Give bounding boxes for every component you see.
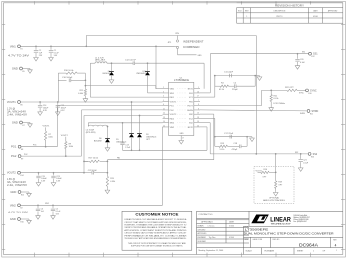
svg-text:SCALE: SCALE [246, 250, 253, 253]
svg-text:R18: R18 [278, 182, 281, 184]
capacitor C6 1uF [36, 209, 40, 211]
svg-text:E8: E8 [21, 149, 23, 151]
ground below R21 [269, 106, 274, 111]
wire SS2 row [210, 153, 308, 155]
svg-text:14: 14 [163, 121, 165, 123]
capacitor C2 [35, 46, 37, 50]
customer notice box [122, 211, 192, 250]
capacitor C18 plates [239, 145, 241, 149]
capacitor C14 output1 a [39, 102, 41, 105]
wire GND E7 [23, 122, 31, 124]
svg-text:C16 100pF: C16 100pF [62, 77, 73, 79]
svg-text:6/1/06: 6/1/06 [313, 16, 318, 18]
svg-text:1: 1 [313, 251, 314, 253]
ground at E16 [27, 219, 32, 224]
svg-text:GND: GND [12, 67, 18, 71]
svg-text:FOR 700kHz: FOR 700kHz [274, 103, 286, 105]
svg-text:4.99k: 4.99k [110, 181, 115, 183]
wire PG2 to IC [82, 109, 163, 111]
wire VIN1 rail [21, 45, 175, 47]
wire SS2 to riser [200, 122, 210, 124]
diode D4 body [109, 72, 114, 76]
wire SHDN to terminal [200, 110, 307, 111]
wire RT to riser [200, 105, 262, 107]
svg-text:VOUT1: VOUT1 [170, 101, 178, 103]
capacitor C4 plates [234, 84, 236, 88]
terminal GND E5 [20, 67, 23, 70]
terminal GND E15 [18, 191, 21, 194]
svg-text:GND: GND [180, 133, 185, 135]
svg-text:2.2uF: 2.2uF [125, 147, 131, 149]
wire BST1 vertical [203, 63, 205, 88]
wire SS1 row to terminal [210, 53, 308, 55]
svg-text:VOUT2: VOUT2 [7, 171, 16, 175]
wire R16 stub [258, 171, 261, 173]
svg-text:4: 4 [335, 243, 337, 247]
svg-text:APPROVED: APPROVED [328, 9, 338, 12]
svg-text:20: 20 [197, 125, 199, 127]
wire BST2 row [123, 149, 208, 151]
capacitor C21 0.1uF [300, 154, 302, 159]
svg-text:470pF: 470pF [232, 149, 238, 151]
svg-text:VOUT2: VOUT2 [61, 135, 69, 137]
resistor R22 OPT [287, 89, 297, 91]
wire R17 row right [100, 160, 107, 162]
svg-text:17: 17 [182, 138, 184, 140]
terminal VIN2 E2 [18, 204, 21, 207]
wire VOUT2 row [84, 115, 163, 117]
svg-text:ENGINEER: ENGINEER [198, 237, 207, 239]
wire SW2 to C13 [122, 123, 124, 143]
wire R9 bottom [65, 149, 67, 157]
resistor R16 OPT [261, 171, 269, 173]
capacitor C17 plates [230, 135, 232, 139]
wire VOUT1 rail [21, 101, 163, 103]
wire VIN2 rail [21, 204, 163, 206]
wire PG1 riser [56, 106, 58, 147]
revision history table [237, 3, 343, 23]
svg-text:C11 22pF: C11 22pF [224, 72, 234, 74]
wire R17 to FB2 row link [106, 160, 108, 162]
wire VOUT2 left riser [83, 116, 85, 173]
svg-text:VIN1: VIN1 [10, 44, 16, 48]
wire D5 to BST2 row [131, 138, 133, 151]
svg-text:DATE: DATE [229, 221, 235, 224]
wire R22 to SYNC [297, 89, 306, 91]
svg-text:TECHNOLOGY APPLICATIONS ENGINE: TECHNOLOGY APPLICATIONS ENGINEERING FOR … [124, 237, 186, 240]
capacitor C2 1uF [34, 51, 38, 53]
ground below C21 [298, 167, 303, 172]
capacitor C14 100uF [38, 106, 42, 108]
diode D4 B0540W [111, 63, 113, 71]
svg-text:BST2: BST2 [188, 127, 194, 129]
svg-text:VIN: VIN [175, 33, 179, 35]
svg-text:C22 47pF: C22 47pF [88, 170, 98, 172]
wire C12 to BST1 corner [135, 62, 204, 64]
capacitor C16 100pF [69, 79, 71, 83]
svg-text:INDEPENDENT: INDEPENDENT [183, 40, 204, 43]
ground below C20 [295, 64, 300, 69]
wire C13 to BST2 row [122, 145, 124, 151]
svg-text:1: 1 [336, 250, 337, 252]
capacitor C23 100uF [51, 176, 55, 178]
svg-text:DESIGNER: DESIGNER [198, 241, 207, 243]
ground below U1 [179, 139, 184, 144]
svg-text:PG2: PG2 [24, 154, 27, 156]
terminal SS1 E12 [309, 52, 312, 55]
svg-text:SIZE: SIZE [245, 239, 249, 241]
resistor R19 4.99k [106, 176, 108, 186]
wire SW2 jog [87, 123, 89, 127]
svg-text:DWG NO: DWG NO [273, 239, 280, 241]
svg-text:DUAL MONOLITHIC STEP-DOWN DC/D: DUAL MONOLITHIC STEP-DOWN DC/DC CONVERTE… [244, 232, 334, 236]
terminal VOUT1 E6 [18, 101, 21, 104]
svg-text:E10: E10 [309, 93, 312, 95]
diode D9 body [137, 134, 142, 138]
wire VIN rail right drop to SS2 row [255, 36, 257, 154]
svg-text:C17 22pF: C17 22pF [224, 133, 234, 135]
svg-text:6/1/06: 6/1/06 [229, 237, 234, 239]
svg-text:3A, VIN2=24V: 3A, VIN2=24V [7, 181, 27, 184]
svg-text:COMBINED: COMBINED [183, 46, 200, 49]
wire GND E15 [21, 191, 29, 193]
ground at E15 [27, 192, 32, 197]
resistor R21 body [270, 95, 272, 102]
svg-text:1: 1 [198, 87, 199, 89]
svg-text:PG2: PG2 [11, 154, 17, 158]
wire RT riser [261, 90, 263, 105]
svg-text:VIN2: VIN2 [45, 203, 49, 205]
ground below C2 [34, 56, 39, 61]
ground right of C11 [257, 76, 262, 81]
wire SW1 node row [90, 62, 95, 64]
capacitor C21 plates [299, 160, 303, 162]
diode D10 CMDSH2-3 [147, 63, 149, 71]
svg-text:B0540W: B0540W [103, 73, 111, 75]
svg-text:16: 16 [197, 91, 199, 93]
wire tracking node riser [275, 154, 277, 181]
wire FB2 riser [213, 114, 215, 160]
capacitor C17 22pF row [215, 136, 247, 138]
wire BST2 riser [206, 127, 208, 150]
op-amp U1 LT3509EFE [169, 82, 194, 135]
wire VOUT2 rail [21, 172, 85, 174]
svg-text:PGVT: PGVT [187, 106, 193, 108]
resistor R18 OPT [275, 181, 277, 189]
svg-text:12: 12 [163, 113, 165, 115]
svg-text:0.1uF: 0.1uF [300, 62, 306, 64]
wire FB2 row [107, 159, 213, 161]
svg-text:E14: E14 [21, 175, 24, 177]
svg-text:THIS CIRCUIT IS PROPRIETARY TO: THIS CIRCUIT IS PROPRIETARY TO LINEAR TE… [128, 242, 186, 245]
capacitor C23 output2 b [53, 173, 55, 176]
svg-text:11: 11 [163, 108, 165, 110]
svg-text:GND: GND [10, 190, 16, 194]
capacitor C15 output1 b [57, 102, 59, 105]
wire VC2 network right side [246, 137, 248, 147]
svg-text:19: 19 [197, 121, 199, 123]
svg-text:E1: E1 [21, 49, 23, 51]
resistor R17 10.0k [90, 160, 100, 162]
svg-text:CONTRACT NO.: CONTRACT NO. [199, 213, 214, 216]
wire GND E16 [21, 218, 30, 220]
svg-text:C.Teixeira: C.Teixeira [208, 225, 215, 227]
svg-text:61.9k: 61.9k [219, 89, 224, 91]
svg-text:VOUT2: VOUT2 [170, 114, 178, 116]
ground below C5 [51, 214, 56, 219]
capacitor C22 47pF [92, 171, 94, 175]
VC1 series RC row [214, 76, 216, 87]
ground below D4 [109, 79, 114, 84]
capacitor C15 100uF [56, 106, 60, 108]
svg-text:2.4A, VIN1=5V: 2.4A, VIN1=5V [7, 113, 28, 116]
svg-text:15: 15 [163, 125, 165, 127]
terminal PG1 E8 [18, 145, 21, 148]
resistor R9 100k [65, 142, 67, 149]
wire VIN1 row to IC [156, 88, 163, 90]
svg-text:E16: E16 [21, 221, 24, 223]
svg-text:1.8V @: 1.8V @ [7, 178, 16, 181]
svg-text:E11: E11 [310, 113, 313, 115]
svg-text:SHEET: SHEET [297, 251, 304, 253]
wire VIN1 drop to pin [155, 46, 157, 88]
ground below C6 [36, 214, 41, 219]
svg-text:CIRCUIT THAT MEETS CUSTOMER-SU: CIRCUIT THAT MEETS CUSTOMER-SUPPLIED SPE… [124, 221, 186, 224]
svg-text:OPTIONAL: OPTIONAL [269, 197, 280, 200]
wire PG1 to IC [57, 105, 162, 107]
wire PG1 row [21, 146, 57, 148]
svg-text:4.7V TO 24V: 4.7V TO 24V [8, 56, 30, 58]
resistor R7 100k [44, 131, 46, 140]
wire L1 left riser to IND1 [89, 63, 91, 97]
svg-text:LT3509EFE: LT3509EFE [174, 79, 189, 82]
svg-text:SS2: SS2 [295, 152, 298, 154]
svg-text:APPROVALS: APPROVALS [201, 221, 213, 224]
svg-text:R10 10.0k: R10 10.0k [64, 70, 74, 72]
svg-text:18: 18 [197, 117, 199, 119]
svg-text:PG1: PG1 [11, 145, 17, 149]
wire C22 row [84, 172, 92, 174]
terminal GND E7 [20, 121, 23, 124]
wire VIN2 riser to pin [162, 127, 164, 205]
ground below R19 [105, 189, 110, 194]
svg-text:HOWEVER, IT REMAINS THE CUSTOM: HOWEVER, IT REMAINS THE CUSTOMER’S RESPO… [124, 224, 186, 227]
capacitor C13 2.2uF [120, 143, 124, 145]
svg-text:VOUT1: VOUT1 [7, 100, 16, 104]
wire C16 row right [71, 79, 86, 81]
svg-text:(FP3-3R3): (FP3-3R3) [86, 132, 96, 134]
svg-text:B0540W: B0540W [94, 140, 102, 142]
svg-text:E5: E5 [23, 71, 25, 73]
diode D6 body [105, 138, 110, 142]
svg-text:7: 7 [198, 100, 199, 102]
capacitor C6 input2 a [37, 205, 39, 208]
svg-text:Monday, September 11, 2006: Monday, September 11, 2006 [199, 249, 224, 252]
capacitor C11 plates [230, 74, 232, 78]
terminal SHDN E11 [307, 110, 310, 113]
svg-text:C20: C20 [300, 59, 303, 61]
svg-text:100k: 100k [48, 137, 52, 139]
wire RT row [262, 89, 288, 91]
svg-text:REVISION HISTORY: REVISION HISTORY [275, 5, 305, 7]
terminal GND E16 [18, 218, 21, 221]
capacitor C5 0.1uF [51, 209, 55, 211]
ground below C19 [36, 181, 41, 186]
svg-text:9: 9 [198, 108, 199, 110]
svg-text:0.1uF: 0.1uF [303, 163, 309, 165]
wire C16 row left [58, 79, 66, 81]
capacitor C19 100uF [36, 176, 40, 178]
diode D5 body [129, 134, 134, 138]
wire SS2 riser [209, 123, 211, 154]
svg-text:SHDN: SHDN [312, 110, 319, 113]
svg-text:Fax: (408)434-0507: Fax: (408)434-0507 [294, 221, 307, 223]
capacitor C1 [50, 46, 52, 50]
ground below R18 [273, 191, 278, 196]
svg-text:SYNC: SYNC [299, 92, 304, 94]
ground below C23 [51, 181, 56, 186]
diode D10 body [145, 72, 150, 76]
inductor L1 4.7uH [95, 62, 107, 63]
svg-text:GND: GND [12, 121, 18, 125]
wire JP1 to GND label [177, 49, 179, 55]
svg-text:1.2V @: 1.2V @ [7, 108, 16, 111]
terminal PG2 E9 [18, 155, 21, 158]
border zone ticks top [35, 1, 311, 4]
svg-text:PROTO: PROTO [276, 16, 283, 18]
wire VC1 network right side [254, 76, 256, 87]
wire VOUT1 to D5 [131, 102, 133, 133]
terminal SYNC E10 [306, 89, 309, 92]
wire D9 to BST2 row [139, 138, 141, 151]
resistor R11 6.04k [84, 89, 86, 95]
U1 pin stubs and labels [163, 88, 169, 90]
wire L1 to C12 [107, 62, 133, 64]
svg-text:3A, VIN1=24V: 3A, VIN1=24V [7, 110, 27, 113]
wire R7 bottom [45, 140, 47, 146]
ground below C1 [49, 56, 54, 61]
svg-text:E2: E2 [21, 208, 23, 210]
wire SS1 riser [209, 54, 211, 93]
svg-text:1: 1 [246, 16, 247, 18]
svg-text:100k: 100k [69, 146, 73, 148]
svg-text:61.9k: 61.9k [274, 98, 279, 100]
svg-text:APPLICATION. COMPONENT SUBSTI: APPLICATION. COMPONENT SUBSTITUTION AND … [124, 229, 187, 232]
svg-text:CHECKED: CHECKED [198, 229, 207, 231]
svg-text:LINEAR: LINEAR [270, 217, 291, 224]
wire FB1 node to IC [85, 85, 155, 87]
wire FB2 to riser [200, 113, 214, 115]
svg-text:10: 10 [197, 113, 199, 115]
wire D10 to SW1 pin row [147, 76, 149, 93]
ground right of C17 [250, 137, 255, 142]
svg-text:C12 0.47uF: C12 0.47uF [125, 59, 137, 61]
svg-text:13: 13 [163, 117, 165, 119]
wire VOUT1 to divider riser [57, 73, 59, 102]
wire VC1 riser [214, 76, 216, 98]
svg-text:DESCRIPTION: DESCRIPTION [274, 10, 286, 12]
svg-text:GND: GND [10, 217, 16, 221]
wire SW2 row [88, 122, 162, 124]
ground below R11 [83, 97, 88, 102]
resistor R13 51.1k [219, 145, 228, 147]
wire R9 top stub [65, 137, 67, 142]
terminal SS2 E13 [308, 153, 311, 156]
capacitor C20 0.1uF [297, 54, 299, 59]
svg-text:PERFORMANCE OR RELIABILITY. C: PERFORMANCE OR RELIABILITY. CONTACT LINE… [124, 234, 187, 237]
wire FB2 node riser [106, 161, 108, 176]
svg-text:CUSTOMER NOTICE: CUSTOMER NOTICE [135, 211, 178, 216]
svg-text:VERIFY PROPER AND RELIABLE OPE: VERIFY PROPER AND RELIABLE OPERATION IN … [124, 226, 187, 229]
wire R16 to node [269, 171, 276, 173]
wire PG2 row [21, 155, 81, 157]
optional tracking dashed box [254, 166, 294, 203]
wire SW1 row to IC [148, 92, 163, 94]
svg-text:SYNC: SYNC [310, 89, 317, 92]
svg-text:4.7V TO 24V: 4.7V TO 24V [8, 212, 29, 214]
wire divider right riser [84, 73, 86, 89]
VC2 series RC row [214, 137, 216, 147]
capacitor C1 0.1uF [49, 51, 53, 53]
wire VC2 to riser [200, 117, 215, 119]
svg-text:LINEAR TECHNOLOGY HAS MADE A B: LINEAR TECHNOLOGY HAS MADE A BEST EFFORT… [124, 218, 187, 221]
svg-text:E15: E15 [21, 194, 24, 196]
svg-text:FILENAME: FILENAME [265, 250, 275, 253]
svg-text:GND: GND [198, 55, 203, 57]
terminal VIN1 E1 [18, 45, 21, 48]
resistor R10 10.0k [66, 72, 77, 74]
svg-text:C21: C21 [303, 159, 306, 161]
svg-text:E6: E6 [21, 104, 23, 106]
svg-text:6.04k: 6.04k [78, 93, 83, 95]
capacitor C20 plates [295, 60, 299, 62]
svg-text:DC964A: DC964A [299, 242, 318, 247]
resistor R4 61.9k [220, 85, 229, 87]
wire VOUT2 to D9 [139, 116, 141, 134]
svg-text:VIN2: VIN2 [10, 203, 16, 207]
svg-text:(BRC-4B7): (BRC-4B7) [95, 60, 105, 62]
svg-text:CIRCUIT BOARD LAYOUT MAY SIGNI: CIRCUIT BOARD LAYOUT MAY SIGNIFICANTLY A… [124, 232, 187, 235]
svg-text:17: 17 [197, 96, 199, 98]
wire PG2 riser [81, 110, 83, 156]
capacitor C12 0.47uF [133, 61, 135, 65]
svg-text:SHDN: SHDN [187, 110, 193, 112]
resistor R21 61.9k [270, 90, 272, 94]
wire VC1 to riser [200, 96, 215, 98]
ground at E7 [28, 123, 33, 128]
wire VC2 riser [214, 118, 216, 136]
svg-text:R22 OPT: R22 OPT [285, 87, 294, 89]
inductor L2 3.3uH [88, 125, 107, 126]
ground below C15 [55, 111, 60, 116]
wire FB1 riser at IC [155, 86, 157, 89]
svg-text:2.4A, VIN2=5V: 2.4A, VIN2=5V [7, 184, 28, 187]
capacitor C5 input2 b [52, 205, 54, 208]
svg-text:51.1k: 51.1k [220, 149, 225, 151]
capacitor C14comp 22pF row [215, 75, 255, 77]
svg-text:220pF: 220pF [232, 89, 238, 91]
svg-text:SHDN: SHDN [300, 113, 306, 115]
svg-text:BST1: BST1 [188, 89, 194, 91]
Linear Technology logo [251, 215, 268, 224]
svg-text:SS1: SS1 [302, 52, 305, 54]
svg-text:TECHNOLOGY: TECHNOLOGY [271, 224, 292, 226]
svg-text:E9: E9 [21, 159, 23, 161]
svg-text:E13: E13 [311, 156, 314, 158]
svg-text:6/1/06: 6/1/06 [229, 225, 234, 227]
ground below C14 [38, 111, 43, 116]
ground below D6 [105, 147, 110, 152]
